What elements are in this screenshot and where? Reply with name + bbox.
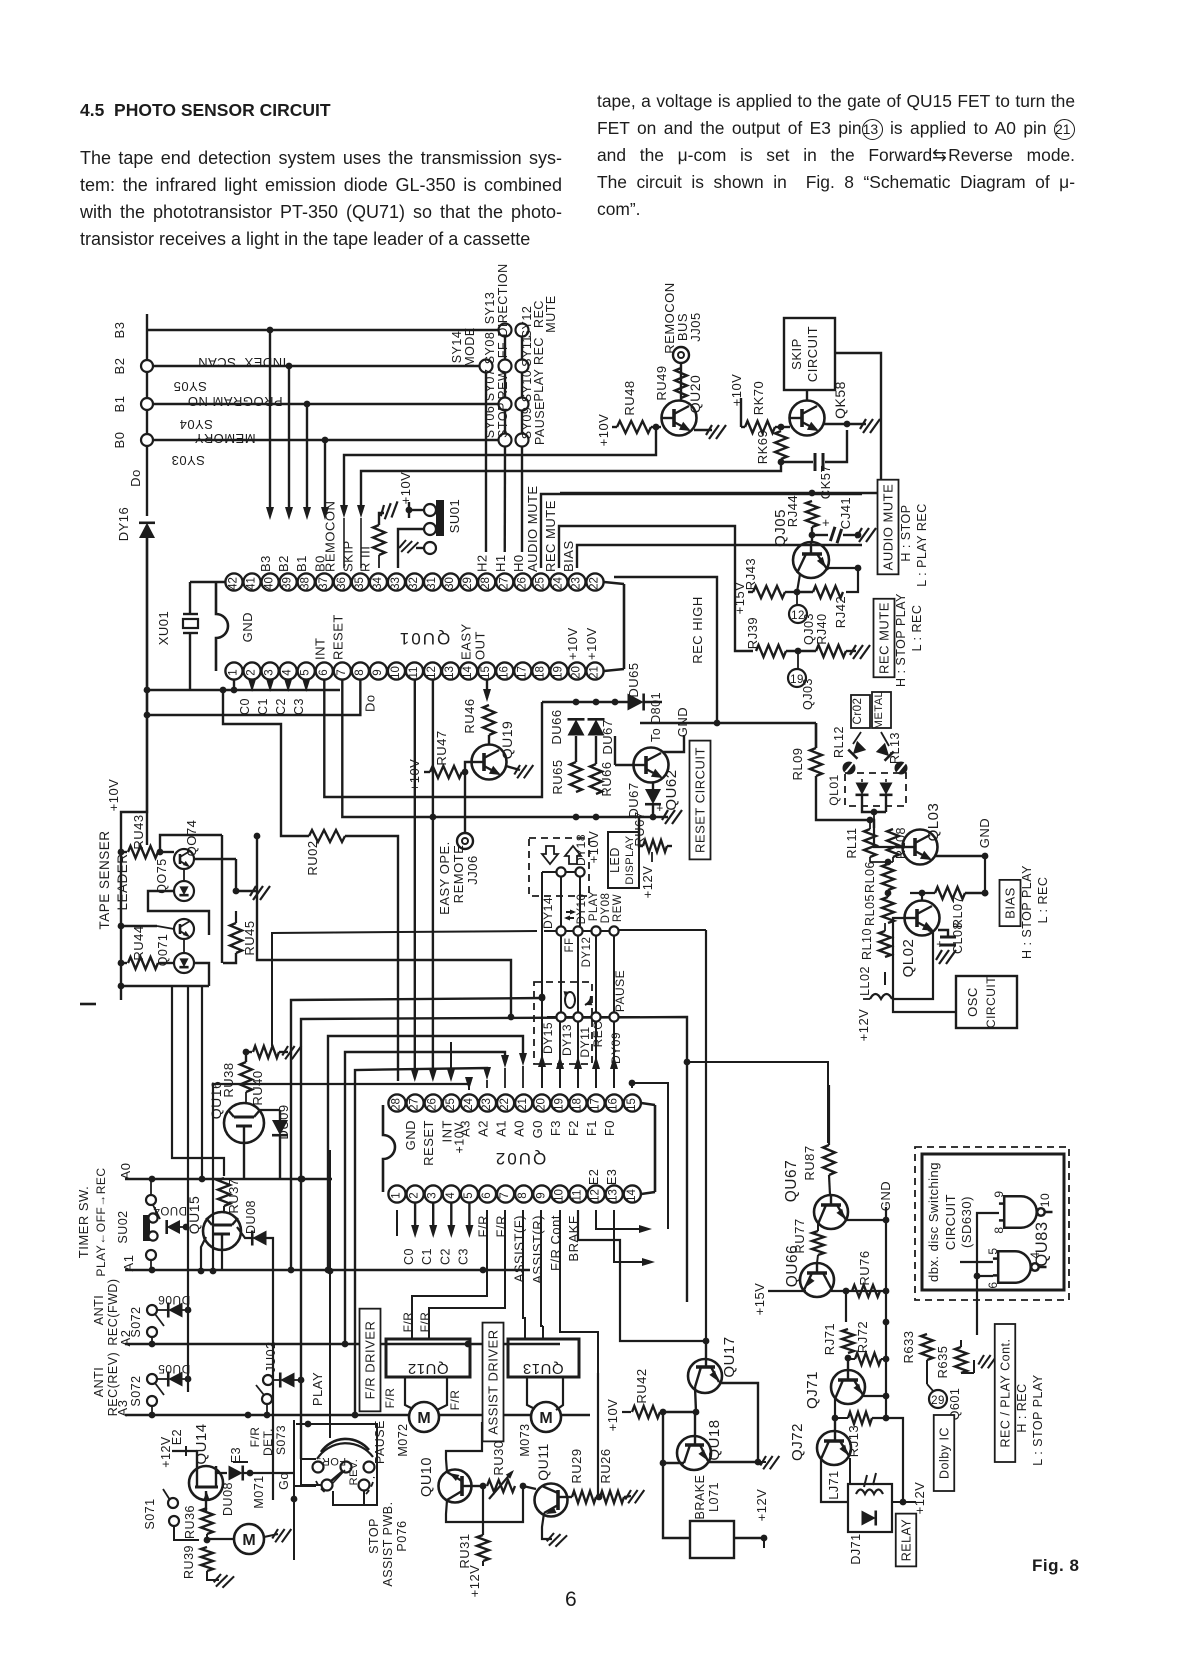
wire QU12 to M072 <box>405 1377 413 1409</box>
svg-text:DU08: DU08 <box>221 1482 235 1516</box>
resistor RU30 variable <box>487 1480 515 1492</box>
svg-text:REW: REW <box>496 369 510 400</box>
svg-text:SKIP: SKIP <box>789 338 804 370</box>
svg-text:BRAKE: BRAKE <box>693 1475 707 1520</box>
svg-text:7: 7 <box>499 1192 511 1198</box>
node Q601 29 <box>926 1360 928 1384</box>
svg-text:RJ42: RJ42 <box>833 596 848 628</box>
svg-text:29: 29 <box>462 577 474 590</box>
wire pin15 down <box>486 680 488 698</box>
wire pin20 column <box>541 872 543 1084</box>
svg-text:QU18: QU18 <box>706 1419 723 1460</box>
svg-text:14: 14 <box>462 666 474 679</box>
wire y817 line <box>576 816 668 818</box>
wire pair stems <box>560 877 562 926</box>
svg-text:JJ06: JJ06 <box>465 855 480 884</box>
transistor QU62 <box>634 748 669 783</box>
svg-text:STOP: STOP <box>496 402 510 438</box>
svg-text:+12V: +12V <box>912 1482 927 1515</box>
svg-text:B0: B0 <box>112 432 127 449</box>
gate QU83b <box>993 1251 1047 1283</box>
wire pin25 AUDIO MUTE line <box>541 494 862 568</box>
glyph arrows row2 <box>566 912 574 918</box>
wire QU17 collector <box>695 1387 696 1412</box>
svg-text:QU13: QU13 <box>522 1360 563 1377</box>
IC QU01 <box>216 582 228 671</box>
wire DY16 to sensor <box>121 538 147 1000</box>
photodiode QO71b <box>174 953 194 973</box>
wire QU67 emitter GND <box>845 1219 886 1221</box>
wire GND col lower <box>885 1322 887 1418</box>
wire LED cols <box>560 936 562 1012</box>
svg-text:QU14: QU14 <box>193 1423 210 1464</box>
svg-text:24: 24 <box>552 577 564 590</box>
transistor QJ72 <box>817 1418 851 1465</box>
svg-text:ASSIST(R): ASSIST(R) <box>530 1215 545 1284</box>
box QU12 <box>386 1339 470 1377</box>
node QU19 base <box>462 769 469 776</box>
svg-text:+12V: +12V <box>754 1489 769 1522</box>
svg-text:EASY OPE.: EASY OPE. <box>437 841 452 915</box>
svg-text:PLAY: PLAY <box>588 891 600 922</box>
wire RU48 to base <box>651 426 661 428</box>
wire QJ71 emitter <box>863 1395 886 1397</box>
svg-text:34: 34 <box>372 577 384 590</box>
LED RL13 <box>876 743 894 761</box>
svg-text:M073: M073 <box>518 1423 532 1456</box>
phototransistor QO74 <box>174 849 194 869</box>
resistor RU46 <box>483 705 495 735</box>
wire crystal bottom <box>218 689 220 691</box>
wire BRAKE +12V <box>734 1537 764 1539</box>
boxlabel ASSIST DRIVER <box>483 1323 504 1442</box>
wire B0 to QU01 <box>322 437 329 444</box>
node RK70/RK69 <box>778 424 785 431</box>
wire QU19 emitter gnd <box>506 766 520 770</box>
svg-text:RL10: RL10 <box>860 928 874 960</box>
svg-text:RL12: RL12 <box>832 726 846 758</box>
transistor QU17 <box>688 1341 722 1393</box>
svg-text:QU12: QU12 <box>407 1360 448 1377</box>
svg-text:31: 31 <box>426 577 438 590</box>
svg-text:PAUSE: PAUSE <box>373 1420 387 1464</box>
svg-text:RESET: RESET <box>330 614 345 660</box>
svg-text:JU02: JU02 <box>264 1341 278 1372</box>
svg-text:RK69: RK69 <box>755 430 770 465</box>
resistor RJ44 <box>806 501 818 527</box>
transistor QK58 <box>790 401 825 436</box>
svg-text:CJ41: CJ41 <box>838 497 853 529</box>
margin dash <box>80 1003 96 1006</box>
svg-text:25: 25 <box>534 577 546 590</box>
svg-text:RJ40: RJ40 <box>815 613 829 644</box>
svg-text:QU15: QU15 <box>186 1196 202 1235</box>
transistor QU11 <box>535 1484 568 1517</box>
box SKIP CIRCUIT <box>784 318 835 390</box>
svg-text:QL02: QL02 <box>900 939 917 978</box>
wire SKIP right <box>835 353 881 493</box>
svg-text:+10V: +10V <box>605 1399 620 1432</box>
svg-text:H : STOP PLAY: H : STOP PLAY <box>1020 865 1034 959</box>
capacitor CJ41 <box>812 534 828 536</box>
svg-text:22: 22 <box>589 577 601 590</box>
svg-text:REC / PLAY Cont.: REC / PLAY Cont. <box>998 1339 1012 1448</box>
wire pin15 elbow <box>632 1083 668 1229</box>
diode DU66 <box>568 719 585 735</box>
svg-text:F/R: F/R <box>383 1388 397 1409</box>
wire sensor bottom <box>118 983 125 990</box>
svg-text:12: 12 <box>590 1189 602 1202</box>
svg-text:REW: REW <box>612 894 624 922</box>
svg-text:8: 8 <box>992 1226 1006 1233</box>
wire riser V3 <box>201 986 203 1179</box>
svg-text:DY08: DY08 <box>600 893 612 924</box>
wire QL03 base <box>816 776 874 828</box>
resistor RU66 <box>595 736 597 764</box>
svg-text:E3: E3 <box>605 1169 619 1185</box>
svg-text:+10V: +10V <box>452 1122 466 1154</box>
connector SU01 <box>408 502 410 518</box>
svg-text:Do: Do <box>128 469 143 487</box>
wire QU17 emitter rail <box>719 1383 758 1463</box>
wire Go column <box>293 1420 295 1473</box>
svg-text:DY09: DY09 <box>609 1032 623 1064</box>
svg-text:QU01: QU01 <box>398 629 450 648</box>
dashed box LED lower <box>534 982 592 1064</box>
wire bundle L2 <box>301 1017 687 1459</box>
transistor QL03 <box>903 830 938 865</box>
svg-text:RU39: RU39 <box>182 1545 196 1579</box>
svg-text:RU46: RU46 <box>462 698 477 733</box>
resistor RU43 <box>118 849 125 856</box>
svg-text:F2: F2 <box>566 1120 581 1136</box>
svg-text:PAUSE: PAUSE <box>533 401 547 445</box>
hollow arrow down <box>542 846 558 864</box>
wire DY16 down <box>146 538 148 845</box>
svg-text:+10V: +10V <box>565 627 580 660</box>
svg-text:A1: A1 <box>121 1255 136 1272</box>
resistor RU31 <box>477 1535 489 1561</box>
svg-text:21: 21 <box>517 1098 529 1111</box>
boxlabel AUDIO MUTE <box>878 480 899 575</box>
IC QU02 <box>383 1105 395 1192</box>
svg-text:GND: GND <box>977 818 992 848</box>
svg-text:M: M <box>539 1410 552 1427</box>
svg-text:FF: FF <box>564 937 576 952</box>
svg-text:PAUSE: PAUSE <box>613 970 627 1012</box>
boxlabel LED DISPLAY <box>608 832 639 888</box>
svg-text:RK70: RK70 <box>751 381 766 416</box>
svg-text:SU02: SU02 <box>116 1210 130 1243</box>
resistor RL09 <box>810 748 822 776</box>
svg-text:9: 9 <box>535 1192 547 1198</box>
svg-text:QU62: QU62 <box>663 769 680 810</box>
wire pin23 BIAS line <box>577 545 862 568</box>
wire bus stem <box>146 330 148 360</box>
resistor RU48 <box>617 421 651 433</box>
resistor RK70 <box>745 421 775 433</box>
transistor QL02 <box>905 901 940 936</box>
svg-text:18: 18 <box>572 1098 584 1111</box>
svg-text:RU30: RU30 <box>491 1440 506 1475</box>
transistor QJ05 <box>793 542 829 578</box>
wire relay out <box>900 1499 907 1506</box>
wire riser V1 <box>172 986 224 1176</box>
svg-text:20: 20 <box>570 666 582 679</box>
wire bundle L3 <box>328 1036 523 1270</box>
wire pin6 to QU12 <box>412 1210 487 1326</box>
svg-text:10: 10 <box>390 666 402 679</box>
resistor RJ42 <box>813 586 843 598</box>
svg-text:M: M <box>242 1532 255 1549</box>
svg-text:5: 5 <box>986 1247 1000 1254</box>
svg-text:FF: FF <box>496 342 510 358</box>
svg-text:B3: B3 <box>258 555 273 572</box>
svg-text:C1: C1 <box>256 698 270 715</box>
svg-text:SKIP: SKIP <box>340 540 355 572</box>
svg-text:32: 32 <box>408 577 420 590</box>
wire bundle L4 <box>345 1052 505 1344</box>
svg-text:B1: B1 <box>112 396 127 413</box>
box OSC CIRCUIT <box>956 976 1017 1028</box>
box relay LJ71 <box>848 1484 892 1532</box>
svg-text:ASSIST DRIVER: ASSIST DRIVER <box>486 1329 501 1434</box>
svg-text:C2: C2 <box>274 698 288 715</box>
svg-text:EASY: EASY <box>459 623 474 660</box>
LED row3 <box>556 1012 565 1021</box>
node B0 <box>141 434 153 446</box>
svg-text:REC HIGH: REC HIGH <box>690 596 705 664</box>
svg-text:+15V: +15V <box>752 1283 767 1316</box>
svg-text:XU01: XU01 <box>156 611 171 646</box>
svg-text:15: 15 <box>480 666 492 679</box>
svg-text:QJ03: QJ03 <box>802 613 816 645</box>
svg-text:19: 19 <box>552 666 564 679</box>
phototransistor QO71 <box>174 919 194 939</box>
svg-text:5: 5 <box>463 1192 475 1198</box>
FET QU16 <box>224 1103 264 1143</box>
svg-text:10: 10 <box>553 1189 565 1202</box>
svg-text:PLAY: PLAY <box>310 1372 325 1406</box>
wire QU02 pin4 C2 <box>450 1203 452 1232</box>
svg-text:MODE: MODE <box>463 327 477 367</box>
wire y493 bus <box>560 492 881 494</box>
svg-text:RU26: RU26 <box>598 1448 613 1483</box>
svg-text:DU05: DU05 <box>158 1362 191 1376</box>
svg-text:27: 27 <box>498 577 510 590</box>
hollow arrow up <box>565 846 581 864</box>
svg-text:1: 1 <box>228 669 240 675</box>
svg-text:QU66: QU66 <box>784 1245 801 1288</box>
resistor RU76 <box>852 1285 880 1297</box>
wire QU16 drain <box>222 1104 228 1110</box>
switch S072b <box>147 1374 157 1384</box>
svg-text:Do: Do <box>362 694 377 712</box>
resistor RU40 <box>246 1051 252 1053</box>
svg-text:12: 12 <box>426 666 438 679</box>
svg-text:RU36: RU36 <box>183 1505 197 1539</box>
svg-text:28: 28 <box>391 1098 403 1111</box>
svg-text:22: 22 <box>499 1098 511 1111</box>
svg-text:QU10: QU10 <box>419 1457 435 1497</box>
svg-text:H : REC: H : REC <box>1015 1383 1029 1432</box>
wire QU18 emitter gnd <box>708 1461 758 1463</box>
boxlabel F/R DRIVER <box>360 1309 381 1412</box>
box dbx inner <box>922 1154 1064 1290</box>
svg-text:+12V: +12V <box>467 1565 482 1598</box>
resistor RL11 <box>864 829 876 857</box>
wire QU15 gate <box>221 1250 223 1271</box>
svg-text:+12V: +12V <box>159 1436 173 1468</box>
svg-text:+: + <box>822 515 830 530</box>
svg-text:OUT: OUT <box>473 631 488 660</box>
svg-text:QK58: QK58 <box>832 381 848 419</box>
svg-text:RU31: RU31 <box>457 1533 472 1568</box>
svg-text:17: 17 <box>516 666 528 679</box>
svg-text:SY05: SY05 <box>173 379 207 394</box>
svg-text:2: 2 <box>409 1192 421 1198</box>
resistor RJ13 <box>848 1412 872 1424</box>
crystal XU01 <box>189 582 191 614</box>
svg-text:C0: C0 <box>402 1248 416 1265</box>
svg-text:QU67: QU67 <box>783 1160 800 1203</box>
motor M072 <box>409 1402 439 1432</box>
terminal JJ06 <box>457 833 473 849</box>
svg-text:F/R DRIVER: F/R DRIVER <box>363 1321 378 1400</box>
svg-text:H : STOP PLAY: H : STOP PLAY <box>894 593 908 687</box>
svg-text:24: 24 <box>463 1098 475 1111</box>
svg-text:(SD630): (SD630) <box>959 1196 974 1248</box>
wire QU11 emitter gnd <box>542 1513 552 1539</box>
svg-text:DY13: DY13 <box>560 1024 574 1056</box>
svg-text:QJ71: QJ71 <box>804 1371 821 1409</box>
wire QL02 top <box>921 893 923 900</box>
diode DJ71 <box>862 1511 876 1526</box>
box QU13 <box>508 1339 579 1377</box>
wire QU12 stubs <box>411 1326 413 1339</box>
svg-text:REMOTE: REMOTE <box>451 845 466 904</box>
svg-text:E2: E2 <box>587 1169 601 1185</box>
boxlabel REC/PLAY Cont <box>995 1324 1016 1462</box>
svg-text:19: 19 <box>553 1098 565 1111</box>
svg-text:14: 14 <box>626 1189 638 1202</box>
wire QL02 base to OSC <box>893 918 956 1012</box>
wire QL01 bottom <box>862 796 886 812</box>
wire QJ05 collector <box>797 574 800 592</box>
svg-text:ANTI: ANTI <box>92 1295 106 1325</box>
wire QU02 pin5 C3 <box>468 1203 470 1232</box>
svg-text:6: 6 <box>986 1281 1000 1288</box>
diode DU65 <box>628 694 644 711</box>
resistor RJ40 <box>816 645 846 657</box>
wire pin42 left <box>190 581 225 583</box>
svg-text:11: 11 <box>408 667 420 679</box>
wire x828 riser <box>770 1060 828 1085</box>
boxlabel RELAY <box>896 1514 917 1567</box>
diode DU08b <box>216 1466 227 1473</box>
resistor RIII <box>373 525 385 555</box>
wire QK58 emitter <box>824 423 866 425</box>
resistor RU38 <box>240 1062 252 1092</box>
svg-text:+10V: +10V <box>584 627 599 660</box>
node sensor mid <box>118 923 125 930</box>
diode DU09 <box>260 1109 280 1111</box>
diode DU67 <box>588 719 605 735</box>
svg-text:RU87: RU87 <box>802 1145 817 1180</box>
svg-text:RU66: RU66 <box>599 761 614 796</box>
svg-text:DU65: DU65 <box>626 662 641 697</box>
wire QJ05 emitter <box>826 568 858 570</box>
svg-text:RU29: RU29 <box>569 1448 584 1483</box>
svg-text:R635: R635 <box>935 1345 950 1378</box>
wire pin7 RESET line <box>342 680 576 817</box>
svg-text:9: 9 <box>992 1190 1006 1197</box>
svg-text:B2: B2 <box>276 555 291 572</box>
rotary switch <box>321 1439 369 1452</box>
node B1 <box>141 398 153 410</box>
svg-text:QU02: QU02 <box>494 1149 546 1168</box>
wire QJ71 collector <box>834 1399 836 1418</box>
svg-text:RU45: RU45 <box>242 920 257 955</box>
resistor RU45 <box>230 923 242 953</box>
resistor RU67 <box>639 817 643 846</box>
wire QU18 collector <box>663 1462 684 1464</box>
coil LJ71 <box>856 1490 883 1495</box>
svg-text:B1: B1 <box>294 555 309 572</box>
svg-text:8: 8 <box>354 669 366 675</box>
svg-text:DUO4: DUO4 <box>153 1204 187 1216</box>
resistor RU36 <box>201 1508 213 1534</box>
wire QU10 base <box>471 1485 483 1487</box>
svg-text:H1: H1 <box>493 554 508 572</box>
svg-text:CL08: CL08 <box>951 922 965 954</box>
transistor QJ71 <box>831 1358 865 1404</box>
svg-text:DIRECTION: DIRECTION <box>496 263 510 336</box>
svg-text:F/R: F/R <box>248 1427 262 1448</box>
svg-text:C3: C3 <box>292 698 306 715</box>
node QJ05 collector <box>811 527 813 542</box>
node B2 <box>141 360 153 372</box>
svg-text:INDEX SCAN: INDEX SCAN <box>198 355 287 370</box>
wire mid node <box>869 857 871 862</box>
svg-text:QJ05: QJ05 <box>772 509 789 547</box>
svg-text:L : REC: L : REC <box>910 605 924 652</box>
wire SKIP line <box>361 462 781 512</box>
svg-text:LED: LED <box>608 847 622 873</box>
wire bundle L5 <box>355 1068 487 1415</box>
wire x663 brake col <box>663 1412 690 1538</box>
svg-text:QO74: QO74 <box>184 820 199 857</box>
wire pin9 to QU13 <box>541 1210 543 1326</box>
svg-text:QJ72: QJ72 <box>789 1423 806 1461</box>
resistor RU47 <box>430 766 462 778</box>
transistor QU18 <box>677 1412 711 1470</box>
svg-text:H : STOP: H : STOP <box>899 504 913 561</box>
wire R633 R635 <box>927 1360 961 1374</box>
svg-text:To D801: To D801 <box>649 692 663 742</box>
svg-text:DJ71: DJ71 <box>849 1533 863 1564</box>
resistor RU29 <box>567 1496 572 1498</box>
svg-text:RJ39: RJ39 <box>745 617 760 649</box>
svg-text:25: 25 <box>445 1098 457 1111</box>
svg-text:CIRCUIT: CIRCUIT <box>805 326 820 382</box>
svg-text:9: 9 <box>372 669 384 675</box>
svg-text:F1: F1 <box>584 1120 599 1136</box>
svg-text:RL13: RL13 <box>888 732 902 764</box>
diode DU67b <box>652 783 654 790</box>
svg-text:39: 39 <box>282 577 294 590</box>
svg-text:L071: L071 <box>707 1482 721 1512</box>
